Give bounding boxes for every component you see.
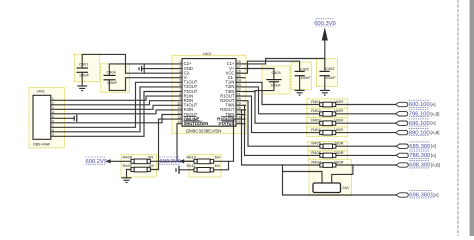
wire GND pin bbox=[144, 68, 182, 70]
U401 left pin names bbox=[184, 61, 209, 126]
capacitor C402 bbox=[295, 71, 305, 90]
selection highlight R406 bbox=[308, 151, 348, 160]
svg-text:11: 11 bbox=[178, 106, 182, 110]
svg-text:R401: R401 bbox=[311, 99, 321, 104]
selection highlight R405 bbox=[308, 141, 348, 150]
wire R405 to tag bbox=[336, 145, 396, 147]
wire R404 to tag bbox=[336, 132, 396, 134]
wire junction bar bbox=[143, 64, 145, 73]
wire R407 to tag bbox=[336, 164, 396, 166]
svg-text:R406: R406 bbox=[311, 150, 321, 155]
selection highlight J401 bbox=[29, 88, 64, 148]
ground below C402 bbox=[295, 90, 305, 95]
node tag row7 bbox=[396, 163, 408, 167]
wire C2+ line bbox=[109, 64, 182, 75]
svg-text:100nF: 100nF bbox=[325, 76, 336, 80]
svg-text:[A,B]: [A,B] bbox=[431, 130, 440, 135]
resistor R402 bbox=[320, 112, 336, 117]
capacitor C408 (series cap before R411) bbox=[176, 166, 179, 174]
node tag bottom bbox=[396, 193, 408, 197]
wire V- line bbox=[109, 78, 182, 91]
svg-text:C405: C405 bbox=[272, 71, 281, 75]
wire T3IN to R403 bbox=[246, 92, 320, 124]
svg-text:100nF: 100nF bbox=[271, 84, 282, 88]
U401 right pin names bbox=[217, 61, 235, 126]
wire C401 top rail bbox=[82, 54, 125, 73]
svg-text:C404: C404 bbox=[107, 71, 116, 75]
svg-text:100nF: 100nF bbox=[300, 76, 311, 80]
svg-text:[A]: [A] bbox=[431, 102, 436, 107]
wire T4IN to R406 bbox=[245, 105, 320, 155]
svg-text:0R: 0R bbox=[148, 155, 153, 160]
capacitor C404 bbox=[104, 75, 116, 79]
svg-text:9: 9 bbox=[179, 97, 181, 101]
svg-text:1M: 1M bbox=[148, 163, 154, 168]
svg-text:100nF: 100nF bbox=[107, 81, 118, 85]
svg-text:100R: 100R bbox=[334, 159, 344, 164]
svg-text:100R: 100R bbox=[334, 108, 344, 113]
svg-text:100nF: 100nF bbox=[79, 74, 90, 78]
selection highlight R403 bbox=[307, 118, 348, 128]
op-amp U401 transceiver box bbox=[182, 59, 236, 127]
svg-text:5: 5 bbox=[179, 79, 181, 83]
arrow left flag bbox=[106, 159, 111, 163]
wire R407 branch to bottom bbox=[283, 165, 397, 195]
svg-text:[A,B]: [A,B] bbox=[431, 163, 440, 168]
U401 overbars on ONLINE and SHUTDOWN bbox=[184, 116, 197, 118]
capacitor C406 (small series cap near U401 pin C2+) bbox=[139, 66, 144, 71]
wire J4A left lead bbox=[283, 172, 323, 184]
svg-text:4: 4 bbox=[179, 74, 181, 78]
svg-text:100R: 100R bbox=[334, 141, 344, 146]
resistor R411 bbox=[194, 168, 214, 173]
node tag row2 bbox=[396, 112, 408, 116]
wire R401 to tag bbox=[336, 104, 396, 106]
svg-text:[A]: [A] bbox=[431, 153, 436, 158]
node tag row6 bbox=[396, 153, 408, 157]
resistor R408 bbox=[131, 159, 150, 164]
svg-text:R402: R402 bbox=[311, 108, 321, 113]
wire J401 pin8 to T2OUT bbox=[51, 87, 182, 132]
svg-text:R411: R411 bbox=[187, 163, 197, 168]
wire R403 to tag bbox=[336, 122, 396, 124]
wire J401 pin3 to T4OUT bbox=[51, 105, 182, 109]
svg-text:6: 6 bbox=[179, 83, 181, 87]
wire J401 pin4 to R3IN bbox=[51, 110, 182, 114]
selection highlight C402 bbox=[291, 62, 312, 90]
wire R409 left to ground bbox=[127, 170, 132, 178]
wire C405 bottom bbox=[255, 82, 274, 92]
wire V+ to C405 bbox=[246, 69, 274, 80]
selection highlight R408 R409 bbox=[121, 155, 157, 178]
svg-text:SHUTDOWN: SHUTDOWN bbox=[184, 121, 209, 126]
svg-text:R410: R410 bbox=[187, 155, 197, 160]
capacitor C405 bbox=[266, 80, 281, 82]
selection highlight U401 bbox=[172, 55, 246, 133]
svg-text:J401: J401 bbox=[37, 89, 45, 94]
svg-text:R404: R404 bbox=[311, 127, 321, 132]
resistor R404 bbox=[320, 130, 336, 135]
svg-text:C402: C402 bbox=[300, 67, 309, 71]
wire VCC to C402 bbox=[246, 61, 300, 73]
svg-text:R403: R403 bbox=[311, 118, 321, 123]
wire T2IN to R402 bbox=[246, 87, 320, 114]
connector J401 bbox=[33, 95, 51, 139]
svg-text:10: 10 bbox=[177, 102, 181, 106]
U401 right pin numbers bbox=[237, 60, 241, 124]
svg-text:C403: C403 bbox=[325, 67, 334, 71]
capacitor C403 bbox=[320, 59, 330, 91]
wire R411 right junction bbox=[214, 161, 229, 170]
node tag row4 bbox=[396, 130, 408, 134]
sheet border bbox=[458, 0, 472, 236]
wire R1OUT to R404 bbox=[246, 96, 320, 133]
svg-text:[A]: [A] bbox=[434, 193, 439, 198]
svg-text:C401: C401 bbox=[79, 62, 88, 66]
resistor R405 bbox=[320, 144, 336, 149]
wire T1IN to R401 bbox=[246, 82, 320, 104]
svg-text:[A,B]: [A,B] bbox=[431, 111, 440, 116]
wire C408 to R411 bbox=[179, 169, 194, 171]
wire J401 pin1 to R1IN bbox=[51, 96, 182, 100]
svg-text:[A]: [A] bbox=[431, 144, 436, 149]
U401 left pin numbers bbox=[177, 60, 181, 124]
svg-text:1: 1 bbox=[179, 60, 181, 64]
capacitor C401 bbox=[77, 68, 89, 86]
jumper J4A bbox=[313, 183, 341, 193]
wire J401 pin6 to T5OUT bbox=[51, 115, 182, 123]
svg-text:STATUS: STATUS bbox=[218, 121, 234, 126]
U401 right pin stubs bbox=[236, 64, 246, 124]
svg-text:R405: R405 bbox=[311, 141, 321, 146]
wire R410 right riser to R2OUTB bbox=[214, 119, 236, 161]
selection highlight C401 bbox=[74, 54, 99, 81]
wire R402 to tag bbox=[336, 113, 396, 115]
wire J401 pin5 stub and capacitor C407 bbox=[51, 115, 77, 122]
arrow mid flag bbox=[179, 159, 184, 163]
ground below R409 bbox=[122, 178, 132, 183]
svg-text:DB9+MAF: DB9+MAF bbox=[33, 143, 51, 147]
node tag row3 bbox=[396, 121, 408, 125]
svg-text:2: 2 bbox=[179, 65, 181, 69]
svg-text:R409: R409 bbox=[123, 163, 133, 168]
power flag arrow bbox=[322, 27, 328, 40]
resistor R401 bbox=[320, 102, 336, 107]
resistor R409 bbox=[131, 167, 150, 172]
selection highlight R407 and J4A bbox=[309, 160, 352, 196]
selection highlight C404 bbox=[101, 64, 130, 93]
svg-text:100R: 100R bbox=[334, 127, 344, 132]
J401 pin numbers bbox=[52, 97, 54, 137]
selection highlight R410 R411 bbox=[189, 155, 221, 178]
svg-text:U401: U401 bbox=[203, 52, 211, 56]
wire tag to R408 bbox=[110, 160, 131, 162]
node tag row1 bbox=[396, 102, 408, 106]
svg-text:1M: 1M bbox=[214, 155, 220, 160]
selection highlight R401 bbox=[307, 99, 348, 109]
svg-text:R408: R408 bbox=[123, 155, 133, 160]
ground below C401 bbox=[77, 86, 87, 91]
wire R3OUT to R407 bbox=[242, 110, 320, 165]
svg-text:GM8C3238EA/SN: GM8C3238EA/SN bbox=[186, 128, 222, 133]
resistor R407 bbox=[320, 163, 336, 168]
svg-text:12: 12 bbox=[177, 111, 181, 115]
svg-text:100R: 100R bbox=[334, 118, 344, 123]
wire R408 to R410 row bbox=[150, 160, 194, 162]
wire ONLINE drop to net flag row bbox=[159, 119, 183, 161]
selection highlight R402 bbox=[307, 108, 348, 118]
svg-text:8: 8 bbox=[179, 92, 181, 96]
svg-text:[A]: [A] bbox=[431, 121, 436, 126]
svg-text:100R: 100R bbox=[334, 150, 344, 155]
wire J4A right lead bbox=[332, 165, 353, 183]
wire R406 to tag bbox=[336, 154, 396, 156]
wire SHUTDOWN drop bbox=[177, 124, 182, 162]
wire R2OUT to R405 bbox=[246, 101, 320, 147]
resistor R403 bbox=[320, 121, 336, 126]
wire J401 pin2 to R2IN bbox=[51, 101, 182, 105]
selection highlight C405 bbox=[262, 66, 290, 94]
wire J401 pin9 to T3OUT bbox=[51, 92, 182, 137]
svg-text:3: 3 bbox=[179, 69, 181, 73]
selection highlight R404 bbox=[307, 127, 348, 137]
svg-text:100R: 100R bbox=[334, 99, 344, 104]
U401 overbars on R2OUTB and STATUS bbox=[221, 116, 234, 118]
selection highlight C403 bbox=[316, 59, 337, 87]
svg-text:1M: 1M bbox=[214, 163, 220, 168]
wire mid flag to R410 bbox=[184, 160, 194, 162]
resistor R406 bbox=[320, 153, 336, 158]
svg-text:J4A: J4A bbox=[342, 186, 349, 190]
node tag row5 bbox=[396, 144, 408, 148]
wire R409 right junction bbox=[150, 161, 158, 169]
power rail wire bbox=[246, 41, 325, 64]
svg-text:13: 13 bbox=[177, 115, 181, 119]
resistor R410 bbox=[194, 159, 214, 164]
svg-text:R407: R407 bbox=[311, 159, 321, 164]
svg-text:7: 7 bbox=[179, 88, 181, 92]
wire J401 pin7 to T1OUT bbox=[51, 82, 182, 127]
ground below C403 bbox=[320, 90, 330, 95]
wire C2- line bbox=[126, 72, 183, 74]
